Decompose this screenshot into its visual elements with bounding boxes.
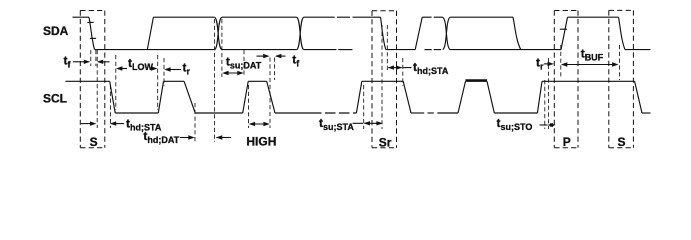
svg-text:S: S: [618, 135, 626, 149]
svg-text:Sr: Sr: [379, 136, 392, 150]
node tLOW right bound: [157, 55, 159, 110]
wire SCL rise 3: [356, 81, 361, 113]
arrow tf2 right: [275, 54, 286, 58]
arrow tsuSTO leader: [540, 124, 548, 126]
repeated START box Sr: [372, 11, 397, 148]
measurement dashed verticals: [91, 19, 620, 142]
arrow thdSTA2 double: [388, 65, 403, 69]
arrow tr1: [164, 67, 181, 71]
wire SCL high pulse 2: [248, 80, 267, 82]
node tf1 left bound: [90, 50, 92, 66]
svg-text:S: S: [90, 135, 98, 149]
arrow tLOW double: [116, 66, 158, 70]
svg-text:SCL: SCL: [43, 92, 67, 106]
wire SCL high pulse 1: [164, 80, 185, 82]
node tHIGH left bound: [248, 85, 250, 128]
wire SDA first data rise: [147, 17, 153, 49]
wire SCL final fall: [635, 81, 642, 113]
wire SCL rise 1: [158, 81, 163, 113]
wire SCL final low: [642, 112, 651, 114]
wire SCL fall pulse 1: [184, 81, 195, 113]
wire SDA high to final START: [568, 16, 619, 18]
node tsuDAT right bound: [243, 50, 245, 77]
node thdDAT right bound: [214, 19, 216, 142]
STOP box P: [554, 11, 578, 148]
node tf1 right bound: [95, 50, 97, 66]
arrow tf1 right: [97, 60, 110, 64]
wire SDA low after Sr: [386, 49, 415, 51]
wire SCL low 3 solid part: [275, 112, 311, 114]
node tsuSTA right bound: [381, 25, 383, 129]
wire SDA both rails between X1 and X2: [222, 16, 297, 18]
wire SDA START fall: [89, 17, 95, 49]
node tLOW left bound: [115, 55, 117, 110]
wire SCL rise 2: [243, 81, 249, 113]
wire SDA low rail after X3: [450, 49, 561, 51]
wire SCL bold high 4: [466, 79, 488, 82]
SCL waveform: [66, 81, 651, 113]
node crossover X1: [215, 17, 222, 49]
node tBUF right bound: [619, 45, 621, 80]
node tr1 right bound: [163, 58, 165, 86]
arrow tsuSTA leader: [353, 122, 364, 124]
wire SCL high 3: [362, 80, 403, 82]
svg-text:HIGH: HIGH: [246, 134, 276, 148]
arrow tf2 left: [257, 54, 270, 58]
wire SCL low 2: [195, 112, 243, 114]
wire SCL rise 4: [458, 81, 466, 113]
node tsuSTO left bound: [544, 80, 546, 129]
wire SDA high rail to crossover 1: [153, 16, 214, 18]
arrow thdDAT right: [216, 135, 231, 139]
node thdSTA2 left bound: [386, 25, 388, 72]
wire SDA high dashes before X3: [422, 16, 431, 18]
wire SCL fall 1: [110, 81, 116, 113]
wire SDA lead-in high: [73, 16, 90, 18]
wire SCL low 4 with break dashes: [411, 112, 424, 114]
arrow tr2: [544, 62, 554, 66]
wire SDA fall before STOP: [513, 17, 521, 49]
node thdDAT left bound: [194, 103, 196, 142]
svg-text:SDA: SDA: [43, 24, 69, 38]
wire SCL fall pulse 2: [267, 81, 275, 113]
SDA waveform: [73, 17, 651, 49]
wire SCL low 1: [115, 112, 158, 114]
svg-text:P: P: [563, 135, 571, 149]
node tsuSTA left bound: [363, 85, 365, 129]
arrow thdSTA1 left: [81, 121, 96, 125]
wire SCL fall 4: [487, 81, 494, 113]
arrow tsuSTA double: [364, 121, 383, 125]
wire SDA low dashes before X3: [425, 49, 432, 51]
node thdSTA2 right bound: [402, 58, 404, 86]
wire SCL lead-in high: [66, 80, 110, 82]
wire SCL low 5: [494, 112, 537, 114]
START box S1: [80, 11, 105, 148]
node tHIGH right and tf2 left bound: [269, 58, 271, 129]
arrow thdDAT left: [180, 135, 195, 139]
wire SDA final low: [625, 49, 650, 51]
wire SDA high into Sr: [353, 16, 381, 18]
node tsuDAT left bound: [221, 19, 223, 77]
final START box S2: [609, 10, 634, 147]
dashed condition boxes: [80, 10, 633, 147]
node thdSTA1 left bound: [96, 50, 98, 128]
arrow tf1 left: [73, 60, 90, 64]
arrow tsuSTO second: [548, 123, 556, 127]
wire SCL rise 5 before STOP: [537, 81, 542, 113]
wire SDA STOP rise: [561, 17, 568, 49]
wire SDA final START fall: [619, 17, 626, 49]
wire SDA rise before X3: [415, 17, 422, 49]
wire SDA repeated START fall: [381, 17, 386, 49]
node tr2 right bound: [560, 45, 562, 77]
arrow thdSTA2 leader: [403, 67, 412, 69]
node crossover X2: [297, 17, 304, 49]
wire SDA low rail: [95, 49, 215, 51]
node tf2 right bound: [274, 58, 276, 81]
arrow thdSTA1 right: [110, 121, 124, 125]
wire SCL low 3 dashed break: [311, 112, 356, 114]
wire SCL long high through STOP: [542, 80, 635, 82]
node 70% cross tick on START fall: [87, 21, 93, 23]
node 30% cross tick on START fall: [90, 37, 96, 39]
node crossover X3: [443, 17, 450, 49]
arrows: [73, 54, 619, 140]
node cross tick on STOP rise: [560, 28, 567, 30]
wire SCL fall 3: [403, 81, 411, 113]
node thdSTA1 right bound: [109, 85, 111, 128]
arrow tHIGH double: [249, 122, 270, 126]
wire SDA high rail after X3: [450, 16, 513, 18]
arrow tsuDAT double: [222, 71, 244, 75]
wire SDA rails after X2 with break dashes: [304, 16, 335, 18]
arrow tBUF double: [561, 62, 619, 66]
